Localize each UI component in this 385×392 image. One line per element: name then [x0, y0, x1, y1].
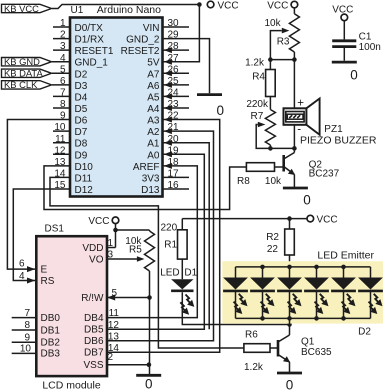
arrow into U1 pin 21 — [164, 128, 172, 134]
node R/W junction — [147, 295, 152, 300]
svg-text:DB5: DB5 — [84, 325, 104, 336]
wire stub U1 pin 30 — [163, 26, 190, 28]
wire stub U1 pin 1 — [53, 26, 70, 28]
svg-text:KB GND: KB GND — [4, 56, 40, 67]
connector flag KB VCC — [2, 4, 52, 12]
wire R1 to D1 — [181, 259, 183, 279]
wire D2 LED 3 anode lead — [289, 267, 291, 278]
wire R8 to Q2 base — [275, 166, 284, 168]
arrow into U1 pin 28 — [164, 47, 172, 53]
svg-text:KB CLK: KB CLK — [4, 79, 38, 90]
LED D2-1 — [223, 278, 248, 290]
node bottom bus LED 4 — [314, 316, 319, 321]
svg-text:RS: RS — [41, 276, 55, 287]
svg-text:C1: C1 — [359, 31, 372, 42]
wire stub U1 pin 28 — [163, 49, 190, 51]
wire stub U1 pin 25 — [163, 84, 190, 86]
svg-text:RESET1: RESET1 — [75, 46, 114, 57]
wire U1 A2 pin 21 to LCD DB6 — [107, 131, 214, 341]
wire Q2 emitter to ground — [293, 175, 295, 188]
wire D2 LED 1 cathode lead — [235, 291, 237, 319]
node VDD junction — [113, 228, 118, 233]
wire LCD VSS to ground — [107, 364, 150, 366]
wire D2 LED 6 cathode lead — [370, 291, 372, 319]
svg-text:DS1: DS1 — [45, 224, 65, 235]
node top bus LED 3 — [287, 265, 292, 270]
svg-text:D9: D9 — [75, 150, 88, 161]
wire stub U1 pin 17 — [163, 176, 190, 178]
LCD module DS1 body — [36, 236, 107, 376]
svg-text:D10: D10 — [75, 162, 94, 173]
Q2 emitter arrowhead — [288, 169, 295, 175]
resistor R6 1.2k — [244, 344, 270, 353]
svg-text:D6: D6 — [75, 116, 88, 127]
wire U1 A3 pin 22 to LCD DB7 — [107, 120, 220, 353]
ground for GND_2 — [197, 93, 222, 96]
wire D2 LED 2 anode lead — [262, 267, 264, 278]
svg-text:DB0: DB0 — [41, 313, 61, 324]
arrow into U1 pin 25 — [164, 82, 172, 88]
node A left — [268, 57, 273, 62]
svg-text:PIEZO BUZZER: PIEZO BUZZER — [300, 134, 377, 146]
svg-text:A1: A1 — [147, 139, 160, 150]
LED D1 — [171, 279, 193, 289]
wire R5 bottom lead — [149, 271, 151, 298]
svg-text:Arduino Nano: Arduino Nano — [97, 4, 161, 16]
node B left — [268, 146, 273, 151]
svg-text:D1: D1 — [184, 268, 197, 279]
LED D2-5 — [331, 278, 356, 290]
connector flag KB GND — [2, 58, 52, 66]
svg-text:220k: 220k — [246, 99, 269, 110]
svg-text:13: 13 — [108, 332, 120, 343]
wire ground drop — [149, 298, 151, 375]
svg-text:220: 220 — [161, 223, 178, 234]
piezo buzzer PZ1 element — [287, 114, 303, 119]
ground for LCD — [136, 374, 161, 377]
wire node B horizontal — [270, 147, 294, 149]
LED D1 emission arrows — [186, 295, 191, 304]
power terminal VCC C1 — [341, 14, 348, 21]
wire VCC to C1 — [343, 20, 345, 39]
wire U1 GND_2 pin 29 to ground — [163, 39, 210, 94]
svg-text:E: E — [41, 264, 48, 275]
svg-text:VO: VO — [89, 254, 104, 265]
wire D2 LED 2 cathode lead — [262, 291, 264, 319]
svg-text:R4: R4 — [252, 72, 265, 83]
wire D2 LED 4 cathode lead — [316, 291, 318, 319]
wire stub U1 pin 3 — [53, 49, 70, 51]
wire LED array top bus — [236, 266, 371, 268]
wire stub U1 pin 23 — [163, 107, 190, 109]
wire D2 LED 6 anode lead — [370, 267, 372, 278]
node D1 join Q1 — [287, 322, 292, 327]
node B right — [292, 146, 297, 151]
svg-text:0: 0 — [145, 377, 153, 392]
arrow into U1 pin 23 — [164, 105, 172, 111]
wire LCD VO to R5 wiper — [107, 258, 137, 260]
arrow into LCD RS — [27, 278, 35, 284]
svg-text:D12: D12 — [75, 185, 94, 196]
svg-text:DB1: DB1 — [41, 325, 61, 336]
svg-text:BC635: BC635 — [301, 347, 332, 358]
svg-text:VCC: VCC — [88, 216, 109, 227]
wire stub U1 pin 11 — [53, 142, 70, 144]
wire R7 wiper return — [256, 125, 270, 149]
LED D2-4 emission arrows — [320, 294, 325, 303]
wire KB DATA to pin 5 — [52, 72, 70, 74]
wire D2 LED 5 anode lead — [343, 267, 345, 278]
svg-text:A3: A3 — [147, 116, 160, 127]
resistor R8 10k — [246, 163, 274, 172]
svg-text:VCC: VCC — [267, 1, 288, 12]
arrow into U1 pin 22 — [164, 117, 172, 123]
svg-text:D2: D2 — [75, 69, 88, 80]
svg-text:DB3: DB3 — [41, 349, 61, 360]
wire VCC node to terminal — [290, 218, 308, 220]
wire to LCD VDD — [107, 247, 116, 249]
LED D2-1 emission arrows — [239, 294, 244, 303]
power terminal VCC mid — [112, 217, 119, 224]
wire R2 bottom lead — [289, 255, 291, 267]
wire Q1 collector — [289, 318, 291, 335]
svg-text:KB DATA: KB DATA — [4, 68, 43, 79]
svg-text:VCC: VCC — [317, 215, 338, 226]
arrow into LCD E — [27, 266, 35, 272]
svg-text:D0/TX: D0/TX — [75, 23, 104, 34]
capacitor C1 100n — [332, 39, 356, 42]
svg-text:DB7: DB7 — [84, 348, 104, 359]
svg-text:BC237: BC237 — [309, 168, 340, 179]
wire VCC to R3 — [293, 8, 295, 14]
wire D2 LED 5 cathode lead — [343, 291, 345, 319]
transistor Q2 base bar — [282, 155, 285, 172]
svg-text:5V: 5V — [147, 58, 160, 69]
svg-text:22: 22 — [267, 244, 279, 255]
node bottom bus LED 2 — [260, 316, 265, 321]
LED D2-6 — [358, 278, 383, 290]
node VCC junction top — [197, 2, 202, 7]
wire R4 to R7 — [269, 97, 271, 110]
svg-text:6: 6 — [19, 258, 25, 269]
wire D2 LED 3 cathode lead — [289, 291, 291, 319]
wire D2 LED 4 anode lead — [316, 267, 318, 278]
svg-text:A7: A7 — [147, 69, 160, 80]
svg-text:DB4: DB4 — [84, 313, 104, 324]
svg-text:R3: R3 — [277, 36, 290, 47]
wire R3 bottom lead — [293, 52, 295, 60]
svg-text:KB VCC: KB VCC — [4, 3, 39, 14]
wire stub U1 pin 26 — [163, 72, 190, 74]
svg-text:DB2: DB2 — [41, 338, 61, 349]
R5 wiper arrow — [137, 256, 145, 262]
wire R4 top lead — [269, 60, 271, 70]
wire VCC rail horizontal — [182, 218, 289, 220]
power terminal VCC R3 — [291, 1, 298, 8]
svg-text:U1: U1 — [71, 5, 84, 16]
svg-text:R/!W: R/!W — [81, 293, 104, 304]
LED D2-3 emission arrows — [293, 294, 298, 303]
resistor R1 220 — [178, 230, 188, 259]
wire D2 LED 1 anode lead — [235, 267, 237, 278]
wire stub U1 pin 7 — [53, 95, 70, 97]
node bottom bus LED 5 — [341, 316, 346, 321]
svg-text:D7: D7 — [75, 127, 88, 138]
svg-text:R6: R6 — [245, 330, 258, 341]
svg-text:VCC: VCC — [218, 0, 239, 11]
wire stub LCD DB3 — [12, 352, 37, 354]
svg-text:0: 0 — [350, 67, 358, 82]
LED D2-3 — [277, 278, 302, 290]
wire U1 A0 pin 19 to LCD DB5 — [107, 154, 204, 329]
wire C1 to ground — [343, 48, 345, 61]
svg-text:D5: D5 — [75, 104, 88, 115]
svg-text:10k: 10k — [265, 176, 282, 187]
svg-text:D8: D8 — [75, 139, 88, 150]
wire KB VCC to VCC rail — [52, 5, 199, 9]
LED D2-2 emission arrows — [266, 294, 271, 303]
svg-text:11: 11 — [109, 308, 120, 319]
svg-text:10k: 10k — [265, 18, 282, 29]
svg-text:VSS: VSS — [83, 360, 103, 371]
svg-text:A6: A6 — [147, 81, 160, 92]
wire R3 wiper return — [270, 31, 281, 60]
svg-text:0: 0 — [303, 193, 311, 208]
wire R1 top lead — [181, 219, 183, 230]
LED D2-4 — [304, 278, 329, 290]
wire stub U1 pin 10 — [53, 130, 70, 132]
svg-text:GND_1: GND_1 — [75, 58, 109, 69]
resistor R4 1.2k — [266, 70, 276, 97]
svg-text:D3: D3 — [75, 81, 88, 92]
node top bus LED 5 — [341, 265, 346, 270]
svg-text:D11: D11 — [75, 173, 93, 184]
potentiometer R7 220k — [265, 110, 275, 146]
node A right — [292, 57, 297, 62]
svg-text:R7: R7 — [251, 111, 264, 122]
wire buzzer top lead — [293, 60, 295, 109]
svg-text:0: 0 — [286, 378, 294, 392]
svg-text:2: 2 — [107, 352, 113, 363]
svg-text:D1/RX: D1/RX — [75, 35, 105, 46]
svg-text:A5: A5 — [147, 92, 160, 103]
power terminal VCC right — [307, 215, 314, 222]
svg-text:R5: R5 — [129, 244, 142, 255]
arrow into U1 pin 19 — [164, 151, 172, 157]
svg-text:R8: R8 — [237, 176, 250, 187]
ground for Q1 — [277, 372, 302, 375]
MCU U1 Arduino Nano body — [70, 18, 163, 197]
wire stub U1 pin 16 — [163, 188, 190, 190]
wire U1 D6 pin 9 to LCD E — [7, 120, 70, 270]
transistor Q2 emitter diagonal — [284, 167, 295, 175]
wire U1 D12 pin 15 to LCD RS — [13, 189, 70, 281]
wire LCD R/W to ground net — [107, 297, 150, 299]
node top bus LED 4 — [314, 265, 319, 270]
wire U1 D11 pin 14 to R6 — [50, 177, 244, 348]
svg-text:A4: A4 — [147, 104, 160, 115]
Q1 emitter arrowhead — [283, 356, 290, 362]
wire node A horizontal — [270, 59, 294, 61]
piezo buzzer PZ1 body — [284, 108, 307, 125]
wire Q1 emitter to ground — [289, 362, 291, 372]
svg-text:LCD module: LCD module — [42, 379, 101, 391]
potentiometer R5 10k — [145, 231, 155, 271]
wire Q2 collector — [293, 148, 295, 152]
wire R7 bottom lead — [269, 145, 271, 148]
wire stub LCD DB0 — [12, 317, 37, 319]
wire VDD node to R5 — [116, 229, 150, 231]
arrow into U1 pin 27 — [164, 59, 172, 65]
wire R2 top lead — [289, 219, 291, 229]
svg-text:DB6: DB6 — [84, 336, 104, 347]
piezo buzzer PZ1 cone — [306, 99, 319, 135]
wire U1 D10 pin 13 to R8 — [44, 166, 246, 210]
wire U1 A1 pin 20 bus drop — [163, 143, 210, 330]
svg-text:100n: 100n — [359, 42, 381, 53]
wire LED array bottom bus — [236, 317, 371, 319]
svg-text:0: 0 — [217, 103, 225, 118]
svg-text:12: 12 — [108, 320, 120, 331]
wire R5 top lead — [149, 230, 151, 231]
LED D2-6 emission arrows — [374, 294, 379, 303]
transistor Q1 collector diagonal — [278, 335, 290, 342]
connector flag KB DATA — [2, 69, 52, 77]
svg-text:GND_2: GND_2 — [126, 35, 160, 46]
svg-text:4: 4 — [19, 271, 25, 282]
wire R6 to Q1 base — [270, 347, 278, 349]
power terminal VCC top — [207, 1, 214, 8]
transistor Q1 emitter diagonal — [278, 355, 290, 363]
wire KB GND to pin 4 — [52, 61, 70, 63]
svg-text:A0: A0 — [147, 150, 160, 161]
svg-text:Q1: Q1 — [301, 337, 315, 348]
arrow into U1 pin 20 — [164, 140, 172, 146]
wire stub U1 pin 24 — [163, 95, 190, 97]
svg-text:R1: R1 — [164, 239, 177, 250]
connector flag KB CLK — [2, 81, 52, 89]
wire stub LCD DB1 — [12, 329, 37, 331]
node VCC-R2 junction — [287, 216, 292, 221]
svg-text:D2: D2 — [358, 327, 371, 338]
svg-text:RESET2: RESET2 — [121, 46, 160, 57]
wire stub U1 pin 8 — [53, 107, 70, 109]
wire D1 cathode to Q1 collector — [182, 292, 289, 324]
wire stub U1 pin 2 — [53, 38, 70, 40]
arrow into U1 pin 18 — [164, 163, 172, 169]
wire buzzer bottom lead — [293, 125, 295, 149]
LED D2-5 emission arrows — [347, 294, 352, 303]
wire KB CLK to pin 6 — [52, 84, 70, 86]
svg-text:A2: A2 — [147, 127, 160, 138]
wire VCC to R5 top and LCD VDD — [115, 223, 117, 247]
svg-text:LED Emitter: LED Emitter — [317, 250, 374, 262]
LED emitter highlight box — [222, 261, 383, 323]
wire U1 AREF pin 18 to LCD DB4 — [107, 166, 197, 318]
ground for C1 — [332, 61, 357, 64]
node bottom bus LED 3 — [287, 316, 292, 321]
arrow into LCD R/W — [107, 295, 115, 301]
wire VCC rail to U1 5V pin 27 — [163, 5, 200, 62]
svg-text:1.2k: 1.2k — [245, 58, 265, 69]
svg-text:VIN: VIN — [143, 23, 160, 34]
arrow into U1 pin 24 — [164, 93, 172, 99]
svg-text:D13: D13 — [141, 185, 160, 196]
transistor Q2 collector diagonal — [284, 153, 295, 160]
svg-text:LED: LED — [160, 268, 179, 279]
R3 wiper arrow — [282, 28, 290, 34]
node top bus LED 2 — [260, 265, 265, 270]
svg-text:AREF: AREF — [133, 162, 160, 173]
R7 wiper arrow — [258, 122, 266, 128]
LED D2-2 — [250, 278, 275, 290]
ground for Q2 — [283, 187, 308, 190]
node VSS junction — [147, 362, 152, 367]
svg-text:3V3: 3V3 — [142, 173, 160, 184]
potentiometer R3 10k — [289, 14, 299, 52]
piezo buzzer PZ1 inner — [286, 112, 304, 122]
arrow into U1 pin 26 — [164, 70, 172, 76]
svg-text:VDD: VDD — [82, 243, 103, 254]
resistor R2 22 — [285, 229, 295, 255]
svg-text:1.2k: 1.2k — [244, 362, 264, 373]
transistor Q1 base bar — [277, 340, 280, 357]
wire stub U1 pin 12 — [53, 153, 70, 155]
wire stub LCD DB2 — [12, 341, 37, 343]
svg-text:R2: R2 — [266, 232, 279, 243]
svg-text:D4: D4 — [75, 92, 88, 103]
